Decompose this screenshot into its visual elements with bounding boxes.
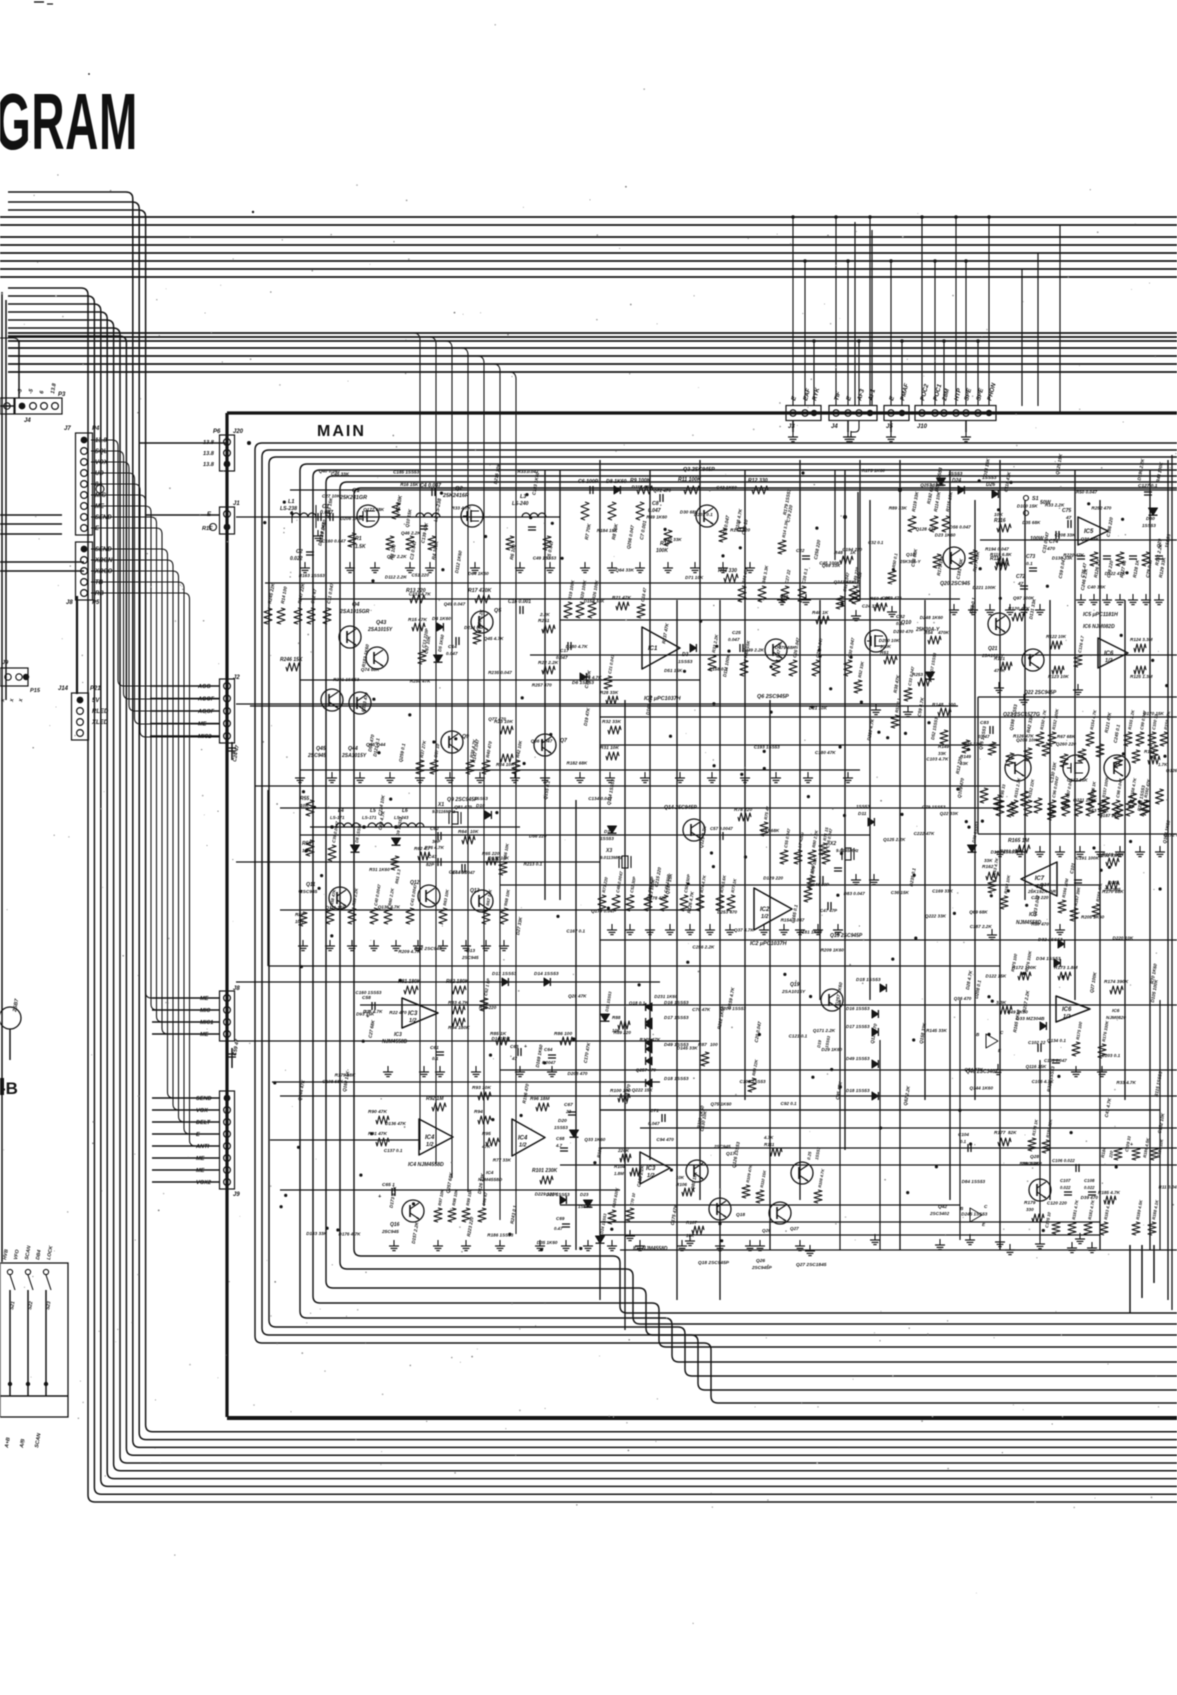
svg-text:2SA1015Y: 2SA1015Y	[781, 989, 806, 995]
svg-text:D112 2.2K: D112 2.2K	[385, 574, 407, 579]
svg-text:R33 4.7K: R33 4.7K	[1116, 1080, 1136, 1085]
svg-text:100: 100	[948, 702, 956, 707]
svg-text:Q7: Q7	[560, 738, 568, 744]
svg-text:D84 1SS53: D84 1SS53	[962, 1179, 986, 1184]
svg-text:Q6 2SC945P: Q6 2SC945P	[757, 694, 789, 700]
svg-text:R89 220: R89 220	[614, 1030, 632, 1035]
svg-text:Q44: Q44	[348, 746, 358, 752]
svg-text:J9: J9	[233, 1192, 240, 1198]
svg-text:C256 2.2K: C256 2.2K	[692, 944, 715, 949]
svg-text:Q77 470: Q77 470	[488, 716, 506, 721]
svg-text:R90 47K: R90 47K	[368, 1109, 387, 1115]
svg-text:L1: L1	[288, 499, 295, 505]
svg-text:C4 0.047: C4 0.047	[420, 483, 442, 489]
svg-text:0.022: 0.022	[1084, 1185, 1095, 1190]
svg-text:R22 470: R22 470	[389, 1010, 407, 1015]
svg-text:L3: L3	[520, 494, 526, 500]
svg-text:R197 220: R197 220	[730, 527, 750, 532]
svg-text:1/2: 1/2	[426, 1142, 434, 1148]
svg-text:0.047: 0.047	[446, 651, 458, 656]
svg-text:D23 1K60: D23 1K60	[935, 533, 956, 538]
svg-text:R21 47K: R21 47K	[612, 595, 631, 601]
svg-text:D71 10K: D71 10K	[685, 575, 704, 580]
svg-text:R54: R54	[924, 630, 933, 636]
svg-text:1.7K: 1.7K	[1158, 762, 1168, 767]
svg-text:Q18 0.1: Q18 0.1	[629, 1000, 646, 1005]
svg-text:D214 68K: D214 68K	[464, 625, 485, 630]
svg-text:1/2: 1/2	[1036, 884, 1044, 890]
svg-text:J1: J1	[233, 501, 240, 507]
svg-text:IC1: IC1	[648, 646, 658, 652]
svg-text:IC6: IC6	[1104, 651, 1114, 657]
svg-text:Q35 33K: Q35 33K	[963, 741, 982, 746]
svg-text:D122 15K: D122 15K	[986, 974, 1007, 979]
svg-text:R258 47K: R258 47K	[410, 678, 431, 683]
svg-text:9.0116MHz: 9.0116MHz	[432, 809, 456, 814]
svg-text:Q14 25C945P: Q14 25C945P	[664, 805, 697, 811]
svg-text:C64: C64	[544, 1047, 553, 1052]
svg-text:R28 33K: R28 33K	[600, 690, 619, 695]
svg-text:330: 330	[1026, 1207, 1034, 1212]
svg-text:Q28 47K: Q28 47K	[568, 994, 587, 999]
svg-text:R179 68K: R179 68K	[335, 1073, 356, 1078]
svg-text:IC5: IC5	[1084, 529, 1094, 535]
svg-text:L4: L4	[338, 808, 344, 814]
svg-text:R57: R57	[295, 912, 304, 918]
svg-text:470K: 470K	[937, 630, 950, 635]
svg-text:Q125 2.2K: Q125 2.2K	[883, 837, 906, 842]
svg-text:ME: ME	[196, 1156, 205, 1162]
svg-text:Q15 2SC945P: Q15 2SC945P	[830, 933, 863, 939]
svg-text:0.1: 0.1	[432, 1056, 439, 1061]
svg-text:C32 0.1: C32 0.1	[868, 540, 884, 545]
svg-text:0.047: 0.047	[648, 1121, 660, 1126]
svg-text:100: 100	[710, 1042, 718, 1047]
svg-text:Q10: Q10	[901, 620, 911, 626]
svg-text:D23: D23	[580, 1192, 589, 1197]
svg-text:IC2: IC2	[760, 907, 770, 913]
svg-text:R194 0.047: R194 0.047	[985, 546, 1009, 551]
svg-text:R145 33K: R145 33K	[926, 1028, 947, 1033]
svg-text:MAIN: MAIN	[317, 423, 366, 440]
svg-text:NJM0820: NJM0820	[1106, 1015, 1126, 1020]
svg-text:10K: 10K	[300, 803, 309, 809]
svg-text:R50 0.047: R50 0.047	[1076, 490, 1098, 495]
svg-text:C259 470: C259 470	[882, 596, 902, 601]
svg-text:D17 1SS53: D17 1SS53	[846, 1024, 870, 1029]
svg-text:1SS53: 1SS53	[948, 471, 963, 477]
svg-text:R64: R64	[458, 829, 467, 835]
svg-text:D208 470: D208 470	[568, 1071, 588, 1076]
svg-text:D39 470: D39 470	[1081, 1195, 1099, 1200]
svg-text:D14 1SS53: D14 1SS53	[534, 971, 559, 977]
svg-text:R106: R106	[676, 1182, 687, 1187]
svg-text:Q18: Q18	[736, 1212, 745, 1218]
svg-text:AGOF: AGOF	[197, 697, 215, 703]
svg-text:D3: D3	[682, 652, 689, 658]
svg-text:C72: C72	[1016, 574, 1025, 580]
svg-text:Q26: Q26	[762, 1228, 771, 1233]
svg-text:R170 68K: R170 68K	[1102, 889, 1124, 895]
svg-text:Q170 0.047: Q170 0.047	[591, 909, 615, 914]
svg-text:R116: R116	[994, 518, 1006, 524]
svg-text:C71: C71	[650, 1108, 659, 1114]
svg-text:0.022: 0.022	[1060, 1185, 1071, 1190]
svg-text:R82 180K: R82 180K	[446, 979, 469, 985]
svg-text:R24 10K: R24 10K	[496, 762, 515, 767]
svg-text:D35 1K60: D35 1K60	[537, 1240, 558, 1245]
svg-text:10K: 10K	[676, 1175, 685, 1180]
svg-text:J20: J20	[233, 429, 244, 435]
svg-text:C134 0.047: C134 0.047	[588, 796, 612, 801]
svg-text:D15 1SS53: D15 1SS53	[856, 977, 881, 983]
svg-text:J4: J4	[831, 424, 838, 430]
svg-text:30P: 30P	[432, 839, 441, 844]
svg-text:VOX: VOX	[196, 1108, 209, 1114]
svg-text:MIC1: MIC1	[200, 1020, 213, 1026]
svg-text:IC3: IC3	[408, 1011, 418, 1017]
svg-text:47K: 47K	[481, 1144, 491, 1149]
svg-text:D170 15K: D170 15K	[1143, 711, 1164, 716]
svg-text:9.0113MHz: 9.0113MHz	[600, 855, 623, 860]
svg-text:D122 47K: D122 47K	[1105, 571, 1126, 576]
svg-text:0.047: 0.047	[728, 637, 740, 642]
svg-text:C14: C14	[448, 644, 457, 650]
svg-text:P5: P5	[92, 600, 100, 606]
svg-text:1/2: 1/2	[1063, 1014, 1071, 1020]
svg-text:D11: D11	[858, 811, 867, 817]
svg-text:82K: 82K	[1008, 1130, 1017, 1135]
svg-text:Q26: Q26	[756, 1258, 765, 1264]
svg-text:C160 0.047: C160 0.047	[322, 539, 346, 544]
svg-text:J3: J3	[788, 424, 795, 430]
svg-text:C74: C74	[1049, 539, 1058, 545]
svg-text:C6 100P: C6 100P	[578, 479, 599, 485]
svg-text:C8: C8	[652, 501, 659, 507]
svg-text:C25: C25	[732, 630, 741, 636]
svg-text:9.0145MHz: 9.0145MHz	[836, 848, 859, 853]
svg-text:J14: J14	[58, 686, 69, 692]
svg-text:1SS53: 1SS53	[554, 1125, 568, 1130]
svg-text:D16 1SS53: D16 1SS53	[664, 1000, 689, 1006]
svg-text:R209 4.7K: R209 4.7K	[398, 949, 421, 954]
svg-text:D17 1SS53: D17 1SS53	[664, 1015, 689, 1021]
svg-text:C120 220: C120 220	[1047, 1200, 1067, 1205]
svg-text:1/2: 1/2	[409, 1018, 417, 1024]
svg-text:C73: C73	[1026, 554, 1035, 560]
svg-text:IC6 NJM082D: IC6 NJM082D	[1083, 624, 1115, 630]
svg-text:Q22 33K: Q22 33K	[940, 811, 959, 816]
svg-text:D8 1K60: D8 1K60	[606, 479, 627, 485]
svg-text:R182 68K: R182 68K	[567, 761, 588, 766]
svg-text:D159 33K: D159 33K	[584, 599, 605, 604]
svg-text:R121: R121	[994, 656, 1005, 661]
svg-text:R123 10K: R123 10K	[1048, 674, 1069, 679]
svg-text:2SA1015Y: 2SA1015Y	[341, 753, 367, 759]
svg-text:Q2: Q2	[455, 486, 464, 492]
svg-text:R9 100K: R9 100K	[630, 478, 652, 484]
svg-text:C167 0.1: C167 0.1	[566, 929, 585, 934]
svg-text:D51 15K: D51 15K	[664, 668, 683, 673]
svg-text:X1: X1	[437, 802, 444, 808]
svg-text:2.2K: 2.2K	[539, 612, 550, 617]
svg-text:Q222 15K: Q222 15K	[632, 1087, 654, 1092]
svg-text:R235 0.047: R235 0.047	[488, 670, 512, 675]
svg-text:SEND: SEND	[196, 1096, 212, 1102]
svg-text:Q231 33K: Q231 33K	[1098, 853, 1120, 858]
svg-text:Q81 470: Q81 470	[454, 805, 472, 810]
svg-text:Q40 0.047: Q40 0.047	[319, 468, 341, 473]
svg-text:C47 47P: C47 47P	[820, 908, 837, 913]
svg-text:R119 6.8K: R119 6.8K	[990, 552, 1012, 557]
svg-text:R12 330: R12 330	[748, 478, 768, 484]
svg-text:Q97 100K: Q97 100K	[1013, 595, 1035, 600]
svg-text:C92 0.1: C92 0.1	[781, 1101, 798, 1106]
svg-text:R15 47K: R15 47K	[408, 617, 427, 623]
svg-text:LS-171: LS-171	[330, 815, 345, 820]
svg-text:Q72 470: Q72 470	[653, 488, 671, 493]
svg-text:Q4: Q4	[352, 602, 360, 608]
svg-text:LS-240: LS-240	[512, 501, 529, 507]
svg-text:220K: 220K	[617, 1148, 630, 1153]
svg-text:C169 33K: C169 33K	[932, 889, 953, 894]
svg-text:47: 47	[511, 1056, 517, 1061]
svg-text:C180 47K: C180 47K	[815, 750, 836, 755]
svg-text:R251: R251	[538, 618, 550, 624]
svg-text:Q19: Q19	[790, 982, 800, 988]
svg-text:ME: ME	[198, 722, 207, 728]
svg-text:D136 47K: D136 47K	[385, 1121, 406, 1126]
svg-text:J10: J10	[917, 424, 928, 430]
svg-text:IC5 μPC1181H: IC5 μPC1181H	[1083, 612, 1118, 618]
svg-text:J5: J5	[886, 424, 893, 430]
svg-text:33K: 33K	[984, 858, 993, 863]
svg-text:C58: C58	[362, 995, 371, 1001]
svg-text:C231 4.7K: C231 4.7K	[409, 591, 432, 596]
svg-text:Q64 33K: Q64 33K	[616, 568, 635, 573]
svg-text:Q11: Q11	[306, 882, 316, 888]
svg-text:0.047: 0.047	[648, 508, 661, 514]
svg-text:LS-238: LS-238	[280, 506, 297, 512]
svg-text:D49 1SS53: D49 1SS53	[846, 1056, 870, 1061]
svg-text:NJM4558D: NJM4558D	[382, 1039, 408, 1045]
svg-text:10K: 10K	[1058, 634, 1067, 639]
svg-text:Q36 470: Q36 470	[954, 996, 972, 1001]
svg-text:IC6: IC6	[1112, 1008, 1120, 1014]
svg-text:Q37 4.7K: Q37 4.7K	[734, 928, 754, 933]
svg-text:R213 0.1: R213 0.1	[524, 862, 543, 867]
svg-text:C121 0.1: C121 0.1	[789, 1034, 808, 1039]
svg-text:1/2: 1/2	[761, 914, 769, 920]
svg-text:Q43: Q43	[376, 620, 386, 626]
svg-text:S1: S1	[1032, 496, 1039, 502]
svg-text:L6: L6	[402, 808, 408, 814]
svg-text:R88: R88	[612, 1015, 621, 1020]
svg-text:R77 33K: R77 33K	[493, 1158, 512, 1163]
svg-text:R11 100K: R11 100K	[678, 477, 702, 483]
svg-text:IC4: IC4	[518, 1136, 528, 1142]
svg-text:5V: 5V	[92, 698, 100, 704]
svg-text:D4 1K60: D4 1K60	[432, 616, 451, 622]
svg-text:E: E	[196, 1132, 200, 1138]
svg-text:R33 2.2K: R33 2.2K	[1045, 503, 1065, 508]
svg-text:Q23 2SC1577G: Q23 2SC1577G	[1003, 712, 1040, 718]
svg-text:C106 0.022: C106 0.022	[1052, 1158, 1075, 1163]
svg-text:100K: 100K	[880, 644, 892, 649]
svg-text:D220 10K: D220 10K	[1113, 936, 1134, 941]
svg-text:D217 68K: D217 68K	[632, 484, 653, 489]
svg-text:10K: 10K	[295, 919, 304, 924]
svg-text:D231 1K60: D231 1K60	[654, 994, 678, 999]
svg-text:Q75 1K60: Q75 1K60	[711, 1102, 732, 1107]
svg-text:Q97 2.2K: Q97 2.2K	[387, 554, 407, 559]
svg-text:MIC: MIC	[200, 1008, 211, 1014]
svg-text:R1: R1	[355, 536, 362, 542]
svg-text:25C945: 25C945	[381, 1229, 399, 1235]
svg-text:C51 220: C51 220	[412, 572, 430, 577]
svg-text:RLED: RLED	[92, 709, 109, 715]
svg-text:P3: P3	[58, 392, 66, 398]
svg-text:ANTI: ANTI	[195, 1144, 209, 1150]
svg-text:IC4 NJM4558D: IC4 NJM4558D	[408, 1162, 444, 1168]
svg-text:C42 1K60: C42 1K60	[716, 485, 737, 490]
svg-text:D183 33K: D183 33K	[306, 1231, 327, 1236]
svg-text:2SA1015GR: 2SA1015GR	[339, 609, 370, 615]
svg-text:D138 33K: D138 33K	[1052, 556, 1073, 561]
svg-text:Q3 2SC945P: Q3 2SC945P	[683, 467, 715, 473]
svg-text:Q21: Q21	[988, 646, 998, 652]
svg-text:D16 1SS53: D16 1SS53	[846, 1006, 870, 1011]
svg-text:1/2: 1/2	[647, 1173, 655, 1179]
svg-text:Q45 4.7K: Q45 4.7K	[484, 636, 504, 641]
svg-text:R98 4.7K: R98 4.7K	[1020, 1161, 1040, 1166]
svg-text:13.8: 13.8	[95, 438, 107, 444]
svg-text:R111: R111	[764, 1142, 775, 1147]
svg-text:C222 47K: C222 47K	[914, 831, 935, 836]
svg-text:1.8M: 1.8M	[614, 1171, 624, 1176]
svg-text:1SS53: 1SS53	[856, 804, 870, 809]
svg-text:D56 220: D56 220	[529, 834, 547, 839]
svg-text:D25 4.7K: D25 4.7K	[363, 1009, 383, 1014]
svg-text:R89 33K: R89 33K	[889, 505, 908, 510]
svg-text:XLED: XLED	[91, 720, 109, 726]
svg-text:C193 1SS53: C193 1SS53	[754, 745, 780, 750]
svg-text:C103 4.7K: C103 4.7K	[926, 757, 949, 762]
svg-text:R177: R177	[994, 1130, 1006, 1136]
svg-text:ME: ME	[196, 1168, 205, 1174]
svg-text:D249 2.2K: D249 2.2K	[742, 648, 765, 653]
svg-text:D248 1K60: D248 1K60	[920, 615, 944, 620]
svg-text:1SS53: 1SS53	[1142, 523, 1156, 528]
svg-text:R76 4.7K: R76 4.7K	[425, 845, 445, 850]
svg-text:R185 4.7K: R185 4.7K	[1098, 1190, 1121, 1195]
svg-text:C79 1SS53: C79 1SS53	[922, 804, 946, 809]
svg-text:C70 47K: C70 47K	[692, 1007, 711, 1012]
svg-text:C2: C2	[296, 549, 303, 555]
svg-text:0.1: 0.1	[1026, 561, 1033, 567]
svg-text:R149: R149	[938, 744, 949, 749]
svg-text:C83: C83	[980, 720, 989, 726]
svg-text:R80 470: R80 470	[1031, 922, 1049, 927]
svg-text:C203 0.1: C203 0.1	[1102, 1053, 1121, 1058]
svg-text:R93 10K: R93 10K	[472, 1085, 491, 1091]
svg-text:D6 1SS53: D6 1SS53	[572, 680, 594, 686]
svg-text:Q231 100K: Q231 100K	[1073, 798, 1097, 803]
svg-text:MIC2: MIC2	[198, 734, 212, 740]
svg-text:Q5: Q5	[494, 608, 502, 614]
svg-text:R257 470: R257 470	[532, 683, 552, 688]
svg-text:R67 68K: R67 68K	[1057, 734, 1076, 739]
svg-text:1/2: 1/2	[519, 1143, 527, 1149]
svg-text:3.3K: 3.3K	[996, 1000, 1007, 1006]
svg-text:C194 220: C194 220	[842, 547, 862, 552]
svg-text:R1F: R1F	[202, 526, 213, 532]
svg-text:Q18 2SC945P: Q18 2SC945P	[698, 1260, 730, 1266]
svg-text:R120 47K: R120 47K	[1008, 606, 1030, 612]
svg-text:D13 1SS53: D13 1SS53	[492, 971, 517, 977]
svg-text:13.8: 13.8	[203, 451, 215, 457]
svg-text:0.47: 0.47	[554, 1226, 563, 1231]
svg-text:R32 33K: R32 33K	[602, 719, 621, 725]
svg-text:Q20 2SC945: Q20 2SC945	[940, 581, 970, 587]
svg-text:C68: C68	[556, 1136, 565, 1141]
svg-text:R55: R55	[300, 796, 309, 802]
svg-text:IC7: IC7	[1035, 876, 1045, 882]
svg-text:D64 1K60: D64 1K60	[468, 571, 489, 576]
svg-text:Q66 0.047: Q66 0.047	[531, 739, 553, 744]
svg-text:Q260 220: Q260 220	[1056, 742, 1077, 747]
svg-text:0.1: 0.1	[960, 1139, 967, 1144]
svg-text:D240 470: D240 470	[893, 629, 913, 634]
svg-text:R33 4.7K: R33 4.7K	[452, 506, 472, 511]
svg-text:D221 100K: D221 100K	[973, 585, 997, 590]
svg-text:C61: C61	[430, 1045, 439, 1051]
svg-text:R56: R56	[302, 841, 311, 847]
svg-text:4.7K: 4.7K	[763, 1135, 774, 1140]
svg-text:D100 15K: D100 15K	[1017, 504, 1038, 509]
svg-text:XRCO: XRCO	[94, 569, 113, 575]
svg-text:0.022: 0.022	[290, 556, 303, 562]
svg-text:C62: C62	[430, 826, 439, 832]
svg-text:J9: J9	[2, 660, 9, 666]
svg-text:Q22 2SC945P: Q22 2SC945P	[1024, 690, 1057, 696]
svg-text:D10: D10	[476, 803, 485, 809]
svg-text:R104: R104	[614, 1164, 625, 1169]
svg-text:IC3: IC3	[646, 1166, 656, 1172]
svg-text:LS-171: LS-171	[362, 815, 377, 820]
svg-text:P15: P15	[30, 688, 41, 694]
svg-text:D33 MZ304B: D33 MZ304B	[1016, 1016, 1045, 1022]
svg-text:R78 220: R78 220	[734, 807, 752, 813]
svg-text:R125 1.3M: R125 1.3M	[1130, 674, 1153, 679]
svg-text:C108: C108	[1084, 1178, 1095, 1183]
svg-text:C107: C107	[1060, 1178, 1071, 1183]
svg-text:4.7: 4.7	[555, 1143, 563, 1148]
svg-text:C57 0.0047: C57 0.0047	[710, 826, 733, 831]
svg-text:SEND: SEND	[95, 515, 112, 521]
svg-text:R173 1.8M: R173 1.8M	[1054, 965, 1078, 971]
svg-text:Q187 220: Q187 220	[1099, 813, 1120, 818]
svg-text:Q69 33K: Q69 33K	[822, 563, 841, 568]
svg-text:C16 0.001: C16 0.001	[508, 599, 531, 605]
svg-text:1SS53: 1SS53	[600, 836, 614, 841]
svg-text:C103 0.047: C103 0.047	[1044, 1058, 1067, 1063]
svg-text:C94 470: C94 470	[656, 1137, 674, 1142]
svg-text:D26: D26	[986, 482, 995, 488]
svg-text:J4: J4	[24, 418, 31, 424]
svg-text:C27 10K: C27 10K	[322, 493, 341, 498]
svg-text:D101 1SS53: D101 1SS53	[991, 850, 1017, 855]
